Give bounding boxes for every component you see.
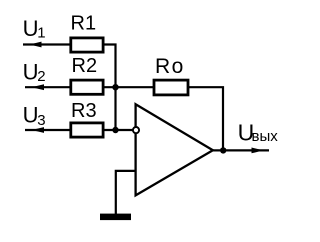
resistor R2 [71,80,103,94]
label U1 [23,16,46,41]
output arrow [252,148,264,154]
wire noninverting input to ground [116,171,136,214]
wire input 1 [23,43,70,45]
node junction at R2/Ro tap [112,84,118,90]
input arrow 3 [32,127,45,133]
svg-text:вых: вых [252,128,279,145]
svg-text:1: 1 [37,24,45,41]
op-amp triangle [136,104,213,195]
label U3 [23,103,46,129]
node junction at inverting input [112,127,118,133]
input arrow 1 [30,42,42,48]
node output junction [220,147,226,153]
wire R2 to Ro [103,86,154,88]
svg-text:R2: R2 [72,55,98,77]
ground [100,214,131,221]
wire input 2 [25,86,70,88]
wire output [212,149,269,151]
resistor R1 [71,38,103,52]
resistor R3 [71,123,103,137]
input arrow 2 [32,84,45,90]
label U2 [23,60,46,85]
op-amp inverting input bubble [133,127,139,133]
svg-text:U: U [23,16,39,41]
svg-text:3: 3 [37,112,45,129]
wire R3 to op-amp inverting input [103,129,133,131]
wire bus from R1 down to inverting node [103,45,116,131]
svg-text:R1: R1 [71,12,97,34]
svg-text:U: U [23,60,39,85]
svg-text:U: U [23,103,39,128]
wire Ro to output node [188,87,223,150]
label Uvyh [238,119,279,145]
svg-text:2: 2 [37,68,45,85]
wire input 3 [25,129,70,131]
svg-text:R3: R3 [71,100,97,122]
svg-text:Ro: Ro [155,55,185,78]
resistor Ro [154,80,188,95]
